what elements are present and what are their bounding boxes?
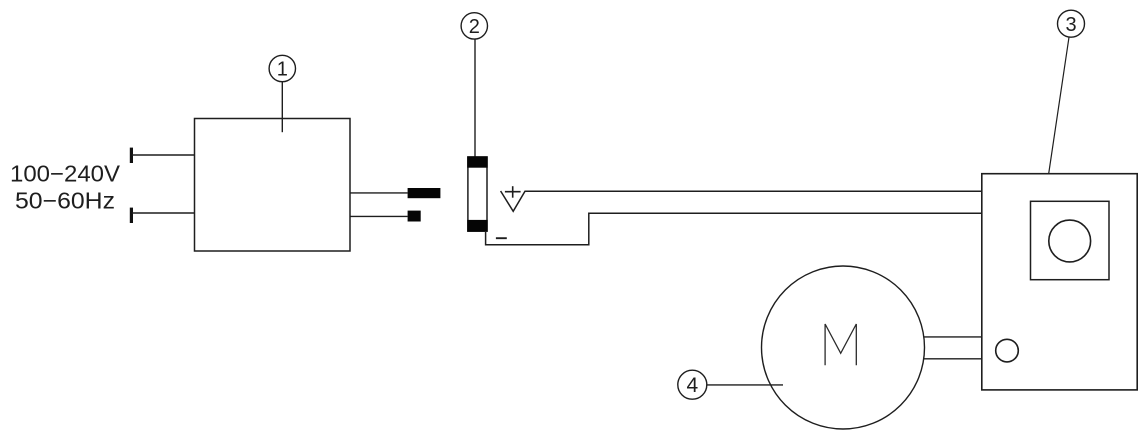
mains label 100-240V 50-60Hz xyxy=(10,161,121,214)
callout balloon 1 xyxy=(269,55,295,81)
DC plug contact lower (black) xyxy=(408,211,421,222)
leader line from balloon 2 to connector xyxy=(474,39,476,157)
control box button (small circle) xyxy=(996,339,1019,362)
svg-text:4: 4 xyxy=(686,374,698,397)
mains input terminal tick (line) xyxy=(130,148,133,163)
leader line from balloon 3 to control box xyxy=(1047,37,1069,185)
control box enclosure (item 3) xyxy=(982,174,1137,390)
DC output wire lower xyxy=(350,215,408,217)
mains input terminal tick (neutral) xyxy=(130,208,133,223)
power supply box (item 1) xyxy=(195,119,351,252)
svg-text:100−240V: 100−240V xyxy=(10,161,121,187)
svg-text:50−60Hz: 50−60Hz xyxy=(15,188,115,214)
control box knob (circle in window) xyxy=(1049,220,1091,262)
callout balloon 3 xyxy=(1058,10,1085,37)
inline connector / fuse body (item 2) xyxy=(467,156,488,231)
callout balloon 4 xyxy=(678,370,707,399)
motor wire upper to control box xyxy=(924,336,982,338)
svg-text:2: 2 xyxy=(469,16,480,38)
leader line from balloon 1 to power supply xyxy=(281,82,283,133)
leader line from balloon 4 to motor xyxy=(707,384,783,386)
mains input wire (line) xyxy=(132,154,195,156)
negative wire to control box xyxy=(486,213,982,244)
svg-text:3: 3 xyxy=(1065,14,1076,36)
control box display window (square) xyxy=(1031,201,1110,279)
positive wire with V check to control box xyxy=(501,191,982,211)
minus polarity symbol xyxy=(496,237,507,239)
motor letter M xyxy=(825,324,856,365)
DC output wire upper xyxy=(350,192,408,194)
callout balloon 2 xyxy=(461,13,487,39)
DC plug contact upper (black) xyxy=(408,188,441,198)
motor circle (item 4) xyxy=(762,266,925,429)
mains input wire (neutral) xyxy=(132,212,195,214)
svg-text:1: 1 xyxy=(277,59,288,81)
plus polarity symbol xyxy=(505,186,521,198)
motor wire lower to control box xyxy=(924,358,982,360)
